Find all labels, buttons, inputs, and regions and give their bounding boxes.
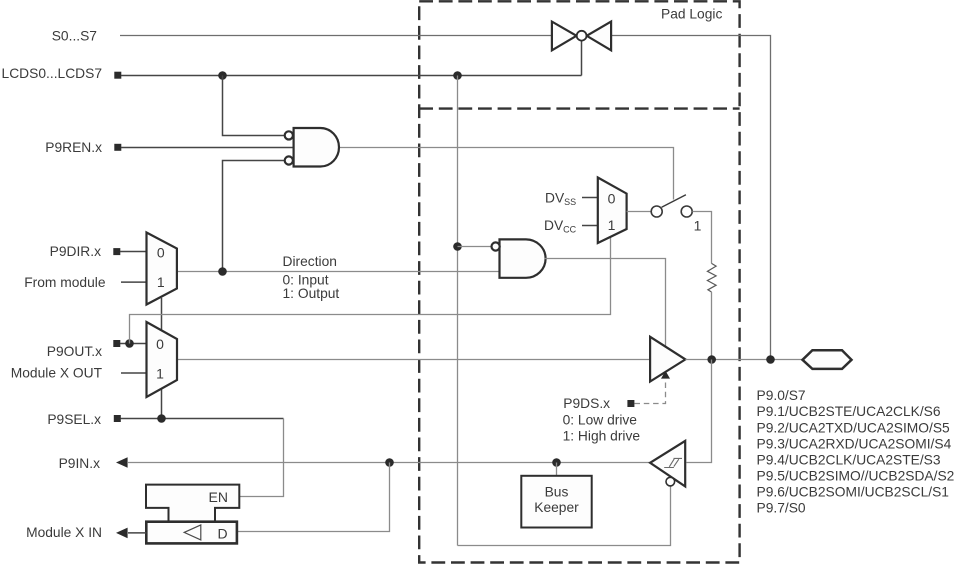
wire P9SEL.x bbox=[121, 418, 284, 420]
svg-text:1: 1 bbox=[157, 274, 165, 290]
svg-text:P9.1/UCB2STE/UCA2CLK/S6: P9.1/UCB2STE/UCA2CLK/S6 bbox=[757, 404, 941, 419]
pad logic inner dashed divider bbox=[419, 107, 739, 109]
wire mux2 output to output driver bbox=[177, 359, 650, 361]
junction AND2 inverted input bbox=[453, 242, 462, 251]
wire DV mux output to switch bbox=[627, 211, 652, 213]
svg-text:P9DIR.x: P9DIR.x bbox=[50, 244, 101, 259]
junction pad line / pull resistor bbox=[707, 355, 716, 364]
junction pad line / LCD column bbox=[766, 355, 775, 364]
wire mux1 output Direction line to AND2 bbox=[177, 271, 500, 273]
svg-text:P9.5/UCB2SIMO//UCB2SDA/S2: P9.5/UCB2SIMO//UCB2SDA/S2 bbox=[757, 468, 955, 483]
bubble U2 top input bbox=[492, 242, 500, 250]
wire AND2 output to driver enable bbox=[545, 259, 666, 347]
latch D box bbox=[146, 522, 237, 544]
bubble U1 top input bbox=[285, 131, 293, 139]
wire P9REN.x to AND1 middle input bbox=[121, 147, 294, 149]
schmitt trigger input buffer bbox=[650, 441, 685, 487]
bubble schmitt output bbox=[666, 477, 675, 486]
wire LCDS tap to transmission gate center bbox=[581, 41, 583, 76]
svg-text:EN: EN bbox=[209, 489, 228, 505]
hysteresis symbol bbox=[664, 458, 682, 467]
wire AND1 output to pull switch bbox=[339, 148, 674, 200]
wire to AND2 inverted input bbox=[458, 246, 492, 248]
wire P9IN.x from schmitt trigger bbox=[128, 462, 651, 464]
dashed wire P9DS to driver bbox=[635, 379, 666, 404]
wire module D input branch bbox=[238, 463, 390, 532]
wire P9OUT feedback to DV mux select bbox=[130, 237, 611, 344]
and-gate U1 (P9REN, 2 inverted inputs) bbox=[294, 128, 339, 167]
switch contact right bbox=[681, 206, 692, 217]
svg-text:P9DS.x: P9DS.x bbox=[563, 396, 610, 411]
wire From module to mux1 input 1 bbox=[121, 281, 147, 283]
transmission gate bubble bbox=[577, 31, 587, 41]
wire LCDS0...LCDS7 bbox=[121, 75, 582, 77]
terminal square P9OUT bbox=[113, 340, 120, 347]
arrowhead P9IN.x bbox=[116, 457, 128, 468]
svg-text:Pad Logic: Pad Logic bbox=[661, 7, 722, 22]
clock triangle in D box bbox=[184, 525, 201, 540]
output driver triangle bbox=[650, 337, 685, 382]
svg-text:Direction: Direction bbox=[283, 254, 337, 269]
svg-text:LCDS0...LCDS7: LCDS0...LCDS7 bbox=[2, 66, 102, 81]
svg-text:P9.0/S7: P9.0/S7 bbox=[757, 388, 806, 403]
wire DVss to DV mux bbox=[582, 197, 598, 199]
svg-text:1: High drive: 1: High drive bbox=[563, 429, 641, 444]
svg-text:Bus: Bus bbox=[545, 485, 569, 500]
pad logic dashed border bbox=[419, 1, 739, 562]
wire switch to resistor bbox=[692, 212, 711, 264]
wire mux select P9SEL column through mux2 bbox=[161, 298, 163, 419]
svg-text:1: 1 bbox=[608, 217, 616, 233]
arrowhead Module X IN bbox=[116, 528, 128, 539]
wire DVcc to DV mux bbox=[582, 225, 598, 227]
svg-text:From module: From module bbox=[24, 275, 106, 290]
svg-text:P9.7/S0: P9.7/S0 bbox=[757, 501, 806, 516]
svg-text:1: Output: 1: Output bbox=[283, 286, 340, 301]
pad hexagon bbox=[803, 350, 852, 369]
wire P9DIR.x to mux1 input 0 bbox=[120, 251, 147, 253]
switch lever bbox=[662, 195, 686, 208]
terminal square P9SEL bbox=[114, 415, 121, 422]
svg-text:P9.6/UCB2SOMI/UCB2SCL/S1: P9.6/UCB2SOMI/UCB2SCL/S1 bbox=[757, 485, 949, 500]
arrowhead P9DS drive strength bbox=[661, 371, 670, 379]
wire transmission gate to pad column bbox=[611, 36, 770, 360]
junction Direction / AND1 inverted branch bbox=[218, 267, 227, 276]
svg-text:P9.4/UCB2CLK/UCA2STE/S3: P9.4/UCB2CLK/UCA2STE/S3 bbox=[757, 452, 941, 467]
svg-text:S0...S7: S0...S7 bbox=[52, 29, 97, 44]
wire resistor to pad line bbox=[711, 292, 713, 360]
svg-text:P9OUT.x: P9OUT.x bbox=[47, 344, 102, 359]
and-gate U2 (pad logic) bbox=[500, 239, 546, 277]
terminal square P9DIR bbox=[113, 248, 120, 255]
junction P9IN / module D branch bbox=[385, 458, 394, 467]
junction P9SEL select column bbox=[157, 414, 166, 423]
svg-text:P9REN.x: P9REN.x bbox=[45, 140, 102, 155]
latch EN box bbox=[146, 485, 239, 522]
wire Direction branch to AND1 bottom inverted input bbox=[223, 161, 286, 272]
svg-text:0: 0 bbox=[608, 191, 616, 207]
wire pad to schmitt input bbox=[686, 360, 711, 463]
svg-text:1: 1 bbox=[156, 365, 164, 381]
pad-logic column wire (LCDS to bus keeper loop) bbox=[457, 76, 459, 546]
svg-text:D: D bbox=[218, 526, 228, 542]
terminal square LCDS bbox=[114, 72, 121, 79]
wire LCDS branch to AND1 top inverted input bbox=[223, 76, 286, 136]
mux1 P9DIR/From module bbox=[147, 233, 177, 305]
junction LCDS / pad-logic column bbox=[453, 71, 462, 80]
svg-text:1: 1 bbox=[694, 218, 702, 234]
pin list bbox=[757, 388, 955, 515]
mux2 P9OUT/Module X OUT bbox=[147, 322, 178, 397]
svg-text:0: Low drive: 0: Low drive bbox=[563, 413, 638, 428]
junction P9OUT feedback bbox=[125, 339, 134, 348]
resistor pull R bbox=[707, 263, 716, 292]
wire P9SEL to EN latch bbox=[240, 419, 284, 497]
svg-text:P9.3/UCA2RXD/UCA2SOMI/S4: P9.3/UCA2RXD/UCA2SOMI/S4 bbox=[757, 436, 952, 451]
junction LCDS / AND1 branch bbox=[218, 71, 227, 80]
svg-text:Module X OUT: Module X OUT bbox=[11, 366, 103, 381]
svg-text:0: 0 bbox=[157, 244, 165, 260]
wire Module X OUT to mux2 input 1 bbox=[121, 372, 147, 374]
terminal square P9REN bbox=[114, 144, 121, 151]
mux DV pull select bbox=[598, 178, 627, 244]
svg-text:Module X IN: Module X IN bbox=[26, 525, 102, 540]
terminal square P9DS bbox=[627, 400, 634, 407]
svg-text:P9IN.x: P9IN.x bbox=[59, 456, 101, 471]
switch contact left bbox=[651, 206, 662, 217]
wire bus keeper loop bottom bbox=[458, 486, 671, 546]
wire P9OUT.x to mux2 input 0 bbox=[120, 343, 147, 345]
pad output line bbox=[685, 359, 802, 361]
transmission gate (LCD switch) left triangle bbox=[552, 22, 577, 51]
bus keeper box bbox=[521, 476, 591, 528]
transmission gate right triangle bbox=[587, 22, 611, 51]
wire S0...S7 to transmission gate bbox=[120, 35, 552, 37]
svg-text:Keeper: Keeper bbox=[534, 500, 579, 515]
svg-text:P9.2/UCA2TXD/UCA2SIMO/S5: P9.2/UCA2TXD/UCA2SIMO/S5 bbox=[757, 420, 951, 435]
wire Module X IN stub bbox=[128, 532, 146, 534]
svg-text:P9SEL.x: P9SEL.x bbox=[47, 412, 101, 427]
junction P9IN / bus keeper bbox=[552, 458, 561, 467]
bubble U1 bottom input bbox=[285, 156, 293, 164]
svg-text:0: 0 bbox=[156, 336, 164, 352]
wire bus keeper tap bbox=[556, 463, 558, 476]
